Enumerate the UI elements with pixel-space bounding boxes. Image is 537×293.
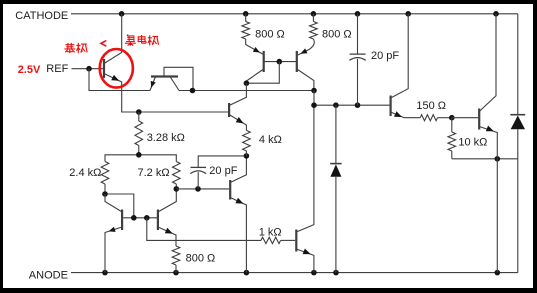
diode D1 cathode bar xyxy=(330,163,341,165)
label R4 4 kOhm xyxy=(259,134,282,146)
junction node R5 bottom xyxy=(102,191,108,197)
transistor Q6 base bar xyxy=(229,180,231,200)
svg-text:CATHODE: CATHODE xyxy=(15,10,68,22)
transistor Q1 emitter arrow xyxy=(111,75,119,81)
red label 2.5V xyxy=(18,64,41,76)
transistor Q9 emitter arrow xyxy=(303,249,311,255)
wire base tie to mirror input node xyxy=(246,62,279,84)
svg-text:20 pF: 20 pF xyxy=(371,50,399,62)
diode D2 top lead xyxy=(517,14,519,115)
capacitor C1 bottom lead xyxy=(357,59,359,105)
transistor Q5 emitter xyxy=(229,115,246,131)
wire R7 to Q9 base xyxy=(281,239,296,241)
svg-text:4 kΩ: 4 kΩ xyxy=(259,134,282,146)
junction node mirror output xyxy=(311,88,317,94)
transistor Q3 emitter arrow xyxy=(253,47,260,53)
svg-text:10 kΩ: 10 kΩ xyxy=(458,136,487,148)
transistor Q7 emitter xyxy=(105,227,122,273)
resistor R3 lead2 xyxy=(138,146,140,155)
junction node105 at C1 xyxy=(355,102,361,108)
transistor Q1 emitter xyxy=(104,74,139,113)
transistor Q6 emitter xyxy=(230,198,246,273)
transistor Q3 collector xyxy=(246,69,263,83)
wire REF to Q1 base xyxy=(72,68,104,70)
svg-text:REF: REF xyxy=(46,63,68,75)
resistor R6 7.2kohm xyxy=(173,162,181,185)
node ANODE label xyxy=(29,269,68,281)
transistor Q8 base bar xyxy=(157,210,159,231)
label R1 800 ohm xyxy=(255,28,285,40)
resistor R8 800ohm xyxy=(172,246,180,265)
diode D1 triangle xyxy=(330,164,341,176)
svg-text:2.4 kΩ: 2.4 kΩ xyxy=(69,167,101,179)
svg-text:2.5V: 2.5V xyxy=(18,64,41,76)
junction node R6 bottom xyxy=(174,186,180,192)
transistor Q4 emitter xyxy=(298,39,314,55)
transistor Q2 emitter xyxy=(150,77,156,91)
resistor R3 3.28kohm xyxy=(135,121,143,146)
wire Q7-Q8 base node xyxy=(123,217,157,219)
wire R10 bottom to anode branch xyxy=(452,158,518,160)
label R7 1 kOhm xyxy=(259,226,282,238)
junction on cathode rail at Q11 collector xyxy=(493,11,499,17)
resistor R1 lead xyxy=(245,14,247,22)
label R9 150 ohm xyxy=(416,100,446,112)
transistor Q10 base bar xyxy=(390,96,392,117)
diode D2 triangle xyxy=(511,116,525,130)
red annotation ellipse around Q1 xyxy=(100,49,133,88)
transistor Q10 collector xyxy=(391,14,409,98)
junction base node left xyxy=(131,215,137,221)
label R3 3.28 kOhm xyxy=(147,132,185,144)
wire mirror output down xyxy=(313,91,315,106)
transistor Q8 emitter xyxy=(158,227,176,246)
transistor Q7 collector xyxy=(105,194,122,212)
wire Q2 collector to mirror node xyxy=(179,90,314,92)
capacitor C1 top plate xyxy=(350,53,366,55)
junction node divider mid xyxy=(136,152,142,158)
junction node REF divider top xyxy=(136,109,142,115)
junction on anode rail at Q7 emitter xyxy=(102,270,108,276)
junction on anode rail at R8 xyxy=(173,270,179,276)
junction node Q11 base xyxy=(449,115,455,121)
transistor Q4 collector xyxy=(297,69,314,89)
resistor R2 800ohm xyxy=(310,22,318,40)
transistor Q10 emitter xyxy=(391,112,421,118)
svg-text:3.28 kΩ: 3.28 kΩ xyxy=(147,132,185,144)
red label jiji (base) xyxy=(64,43,87,53)
resistor R10 lead xyxy=(451,118,453,132)
red arrow < xyxy=(101,41,106,47)
junction on cathode rail at R1 xyxy=(243,11,249,17)
junction on cathode rail at R2 xyxy=(311,11,317,17)
junction node mirror input xyxy=(244,80,250,86)
junction node105 at D1 xyxy=(333,102,339,108)
label R2 800 ohm xyxy=(322,28,352,40)
transistor Q5 emitter arrow xyxy=(236,117,244,123)
transistor Q7 emitter arrow xyxy=(109,227,116,232)
label R5 2.4 kOhm xyxy=(69,167,101,179)
svg-text:ANODE: ANODE xyxy=(29,269,68,281)
capacitor C2 top plate xyxy=(191,166,207,168)
transistor Q11 collector xyxy=(479,14,496,112)
transistor Q1 collector xyxy=(104,14,122,64)
junction base node right xyxy=(144,215,150,221)
junction on cathode rail at Q1 collector xyxy=(119,11,125,17)
junction on anode rail at Q9 emitter xyxy=(311,270,317,276)
transistor Q2 collector xyxy=(170,77,179,91)
transistor Q11 base bar xyxy=(478,109,480,130)
svg-text:7.2 kΩ: 7.2 kΩ xyxy=(138,167,170,179)
wire node189 to Q6 base xyxy=(176,188,229,190)
resistor R5 lead xyxy=(104,184,106,194)
transistor Q6 collector xyxy=(230,156,246,183)
label R10 10 kOhm xyxy=(458,136,487,148)
junction node105 left xyxy=(311,102,317,108)
transistor Q9 emitter xyxy=(296,249,314,273)
transistor Q2 base loop to collector xyxy=(164,67,193,89)
wire R9 to node xyxy=(438,117,452,119)
transistor Q1 base bar xyxy=(103,59,105,78)
junction on cathode rail at Q10 collector xyxy=(405,11,411,17)
transistor Q3 emitter xyxy=(246,39,263,54)
svg-text:800 Ω: 800 Ω xyxy=(186,253,216,265)
junction on anode rail at Q11 emitter xyxy=(495,270,501,276)
wire Q3-Q4 base tie xyxy=(264,61,297,63)
capacitor C1 bottom plate xyxy=(349,58,365,61)
transistor Q10 emitter arrow xyxy=(394,111,402,117)
diode D2 bottom lead xyxy=(517,129,519,272)
junction node REF xyxy=(86,66,92,72)
resistor R4 4kohm xyxy=(243,130,251,151)
capacitor C1 top lead xyxy=(357,14,359,54)
transistor Q5 collector xyxy=(229,83,246,105)
wire divider mid xyxy=(105,155,176,162)
transistor Q2 emitter arrow xyxy=(151,81,156,88)
svg-text:800 Ω: 800 Ω xyxy=(255,28,285,40)
junction on cathode rail at C1 xyxy=(355,11,361,17)
capacitor C2 lead xyxy=(197,172,199,189)
svg-text:800 Ω: 800 Ω xyxy=(322,28,352,40)
transistor Q4 emitter arrow xyxy=(300,48,307,53)
resistor R7 1kohm xyxy=(261,237,281,243)
junction on anode rail at D1 xyxy=(333,270,339,276)
diode D1 top lead xyxy=(335,105,337,163)
wire node105 xyxy=(314,104,390,106)
transistor Q9 base bar xyxy=(295,230,297,252)
wire divider top to Q5 base xyxy=(139,111,228,113)
transistor Q7 base bar xyxy=(121,210,123,231)
resistor R6 lead xyxy=(175,184,177,189)
wire R5 to Q7 collector xyxy=(105,194,134,217)
resistor R3 lead xyxy=(138,112,140,121)
transistor Q5 base bar xyxy=(228,103,230,117)
junction base tie xyxy=(277,59,283,65)
wire cathode rail xyxy=(71,13,518,15)
transistor Q2 base bar xyxy=(151,75,178,77)
capacitor C2 bottom plate xyxy=(190,171,206,174)
transistor Q9 collector xyxy=(296,105,314,232)
diode D1 bottom lead xyxy=(335,177,337,273)
resistor R10 10kohm xyxy=(448,132,456,151)
resistor R1 800ohm xyxy=(242,22,250,40)
junction Q2 collector-base xyxy=(190,88,196,94)
node REF label xyxy=(46,63,68,75)
resistor R4 lead xyxy=(245,151,247,156)
junction node C2 bottom xyxy=(195,186,201,192)
resistor R10 lead2 xyxy=(451,151,453,159)
label R6 7.2 kOhm xyxy=(138,167,170,179)
resistor R5 2.4kohm xyxy=(101,162,109,185)
transistor Q8 emitter arrow xyxy=(165,228,173,234)
resistor R9 150ohm xyxy=(420,115,437,121)
transistor Q3 base bar xyxy=(263,51,265,72)
wire anode rail xyxy=(71,272,518,274)
node CATHODE label xyxy=(15,10,68,22)
transistor Q6 emitter arrow xyxy=(235,198,243,204)
red label jidianji (collector) xyxy=(125,35,159,46)
svg-text:1 kΩ: 1 kΩ xyxy=(259,226,282,238)
transistor Q11 emitter arrow xyxy=(486,126,494,132)
svg-text:20 pF: 20 pF xyxy=(209,165,237,177)
label C2 20 pF xyxy=(209,165,237,177)
resistor R8 lead xyxy=(175,265,177,273)
transistor Q11 emitter xyxy=(479,127,497,273)
diode D2 cathode bar xyxy=(510,114,525,116)
wire node to Q11 base xyxy=(452,117,478,119)
wire C2 top connection xyxy=(198,156,246,167)
resistor R2 lead xyxy=(312,14,314,22)
wire REF down-right feedback xyxy=(89,69,150,91)
junction node R4 bottom xyxy=(244,153,250,159)
junction on anode rail at Q6 emitter xyxy=(244,270,250,276)
junction node Q11 emitter xyxy=(495,156,501,162)
transistor Q8 collector xyxy=(158,189,176,212)
label C1 20 pF xyxy=(371,50,399,62)
svg-text:150 Ω: 150 Ω xyxy=(416,100,446,112)
label R8 800 ohm xyxy=(186,253,216,265)
transistor Q4 base bar xyxy=(296,51,298,72)
wire base node down to R7 xyxy=(147,218,261,241)
